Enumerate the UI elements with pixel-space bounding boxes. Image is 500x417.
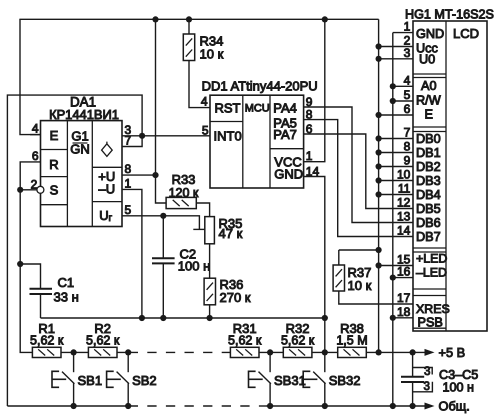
svg-text:XRES: XRES [416,302,450,316]
svg-text:1: 1 [125,176,132,190]
svg-text:10: 10 [397,168,411,182]
wire dashed row segment [138,351,230,353]
junction dot GND bus/ground rail [390,403,396,409]
svg-text:PA7: PA7 [273,127,297,142]
push button SB31 [269,352,271,372]
junction dot +5V/C3-C5 [410,349,416,355]
svg-text:1: 1 [306,149,313,163]
wire pin3/7 tie and left loop riser [7,95,142,406]
HG1 pin 4 A0 stub and number [393,85,413,87]
wire DA1 pin4 E drop from top rail [20,19,41,134]
push button SB32 [324,352,326,372]
svg-text:U0: U0 [419,52,435,66]
svg-text:5,62 к: 5,62 к [30,334,64,348]
resistor R38 1.5M [338,347,367,357]
svg-text:100 н: 100 н [178,259,210,274]
junction dot SB1/ground [71,403,77,409]
resistor R1 5.62k [32,347,61,357]
svg-text:R/W: R/W [416,94,441,108]
svg-text:A0: A0 [421,79,437,93]
resistor R34 10k [188,19,190,34]
svg-text:120 к: 120 к [169,186,199,200]
svg-text:PSB: PSB [418,316,443,330]
HG1 pin 10 DB3 stub and number [379,180,413,182]
svg-text:2: 2 [31,178,38,192]
wire R35 to R36 [209,244,211,278]
svg-text:3: 3 [424,366,430,378]
push button SB1 [73,352,75,372]
HG1 pin 18 PSB stub and number [393,317,413,319]
svg-text:DB3: DB3 [416,174,441,188]
HG1 pin 9 DB2 stub and number [379,166,413,168]
node R/S net vertical (DA1 R,S to R1) [20,162,40,353]
svg-text:SB2: SB2 [132,373,157,388]
wire R38 to +5V arrow [366,351,425,353]
junction dot SB31/ground [267,403,273,409]
svg-text:U: U [99,208,108,223]
svg-text:8: 8 [306,108,313,122]
svg-text:S: S [50,183,59,198]
svg-text:R: R [49,157,58,172]
wire PA4 to LCD DB6 pin13 [304,107,413,223]
HG1 pin 15 +LED stub and number [379,265,413,267]
HG1 pin 5 R/W stub and number [393,100,413,102]
junction dot +U net [152,172,158,178]
svg-text:8: 8 [404,140,411,154]
wire DA1 pin8 +U stub [122,174,156,176]
HG1 pin 7 DB0 stub and number [379,138,413,140]
wire C1 branch from S-net [20,264,40,289]
svg-text:LCD: LCD [453,26,479,41]
resistor R2 5.62k [88,347,117,357]
DA1 pin 2 S inversion circle and number [37,186,44,193]
junction dot R36/ground rail [207,315,213,321]
resistor R37 10k [338,250,340,265]
svg-text:5: 5 [125,203,132,217]
svg-text:E: E [50,128,59,143]
HG1 pin 6 E stub and number [379,114,413,116]
wire PA7 to LCD DB5 pin12 [304,134,413,209]
svg-text:16: 16 [397,265,411,279]
svg-text:г: г [109,213,113,224]
capacitor block C3-C5 [412,352,414,376]
wire DA1 pin2 S stub [20,189,36,191]
svg-text:14: 14 [397,224,411,238]
wire R32-R38 [312,351,338,353]
svg-text:7: 7 [404,126,411,140]
svg-text:6: 6 [306,122,313,136]
svg-text:13: 13 [397,210,411,224]
wire DA1 pin1 -U to ground rail [122,189,142,318]
wire bottom ground rail left [7,405,138,407]
svg-text:270 к: 270 к [220,290,251,305]
HG1 pin 8 DB1 stub and number [379,152,413,154]
HG1 pin 11 DB4 stub and number [379,194,413,196]
svg-text:RST: RST [215,100,241,115]
wire GND drop (DD1 pin14 down) [304,177,325,353]
wire R33 feed from top rail [156,20,167,203]
resistor R36 270k [204,278,215,305]
svg-text:5: 5 [404,88,411,102]
svg-text:–U: –U [98,182,115,197]
wire top +5V rail (E net) [19,18,378,20]
svg-text:+5 В: +5 В [439,345,466,360]
svg-text:SB1: SB1 [78,373,103,388]
svg-text:10 к: 10 к [348,278,372,293]
svg-text:10 к: 10 к [200,47,224,62]
ground Общ. arrow [425,403,435,410]
svg-text:DB6: DB6 [416,216,441,230]
svg-text:DB5: DB5 [416,202,441,216]
junction dot R37/+5V [376,247,382,253]
svg-text:5: 5 [202,124,209,138]
wire VCC riser (DD1 pin1 to top rail) [304,19,325,161]
svg-text:11: 11 [398,182,411,196]
svg-text:SB32: SB32 [329,373,361,388]
svg-text:5,62 к: 5,62 к [281,334,315,348]
svg-text:14: 14 [306,164,320,178]
svg-text:C1: C1 [58,275,75,290]
wire +5V column [378,19,380,352]
svg-text:7: 7 [125,134,132,148]
resistor R32 5.62k [283,347,312,357]
svg-text:1: 1 [404,20,411,34]
junction dot top rail/VCC [322,16,328,22]
wire analog ground rail [41,317,325,319]
wire R2 to dashed break [117,351,138,353]
junction dot top rail/R34 [186,16,192,22]
svg-text:12: 12 [397,196,411,210]
junction dot C3-C5/ground rail [410,403,416,409]
svg-text:+LED: +LED [416,251,447,265]
svg-text:3: 3 [424,381,430,393]
svg-text:1,5 М: 1,5 М [336,334,367,348]
wire R37 top to +5V column [339,249,379,251]
wire bottom ground rail right [266,405,426,407]
wire DA1 pin5 Ur line [122,216,199,230]
junction dot SB2/ground [125,403,131,409]
junction dot C1 branch [17,261,23,267]
svg-text:4: 4 [201,95,208,109]
wire GND bus column [392,33,394,406]
junction dot pin3 net [139,133,145,139]
svg-text:4: 4 [32,122,39,136]
svg-text:E: E [425,108,433,122]
wire INT0 net (DA1 pin3/7 to DD1 pin5) [122,135,210,137]
junction dot S-net pin2 [17,187,23,193]
push button SB2 [127,352,129,372]
svg-text:DB1: DB1 [416,146,441,160]
junction dot top rail/R33 net [152,16,158,22]
svg-text:INT0: INT0 [214,128,242,143]
svg-text:DD1 ATtiny44-20PU: DD1 ATtiny44-20PU [202,79,318,94]
resistor R33 120k [166,197,196,208]
HG1 pin 2 Ucc stub and number [379,46,413,48]
resistor R31 5.62k [230,347,259,357]
svg-text:33 н: 33 н [54,290,79,305]
junction dot SB32/ground [322,403,328,409]
junction dot R2/SB2 [125,349,131,355]
svg-text:Общ.: Общ. [439,399,470,414]
junction dot R32/R38/SB32/GND [322,349,328,355]
svg-text:8: 8 [125,162,132,176]
svg-text:17: 17 [397,291,411,305]
svg-text:6: 6 [32,149,39,163]
wire bottom ground rail dashed [138,405,266,407]
wire R35 wiper bar [193,228,205,230]
svg-text:HG1 MT-16S2S: HG1 MT-16S2S [405,8,494,22]
svg-text:DB7: DB7 [416,230,441,244]
svg-text:DB0: DB0 [416,132,441,146]
junction dot GND/analog rail [322,315,328,321]
DA1 pin 4 E stub and number [30,134,41,136]
svg-text:GND: GND [416,27,444,41]
svg-text:DB2: DB2 [416,160,441,174]
svg-text:MCU: MCU [245,103,270,115]
junction dot R38/+5V column [376,349,382,355]
svg-text:SB31: SB31 [274,373,306,388]
junction dot C2/ground rail [160,315,166,321]
svg-text:18: 18 [397,305,411,319]
MCU DD1 ATtiny44-20PU [210,95,304,188]
svg-text:6: 6 [404,102,411,116]
HG1 pin 16 -LED stub and number [393,277,413,279]
svg-text:–LED: –LED [416,265,447,279]
junction dot -U/ground rail [139,315,145,321]
svg-text:3: 3 [404,46,411,60]
junction dot Ur/C2 [160,213,166,219]
capacitor C2 [162,216,164,258]
HG1 pin 1 GND stub and number [393,32,413,34]
wire R31-R32 [259,351,283,353]
svg-text:КР1441ВИ1: КР1441ВИ1 [49,107,119,122]
junction dot R1/R2/SB1 [71,349,77,355]
svg-text:9: 9 [404,154,411,168]
wire R1-R2 [61,351,88,353]
svg-text:GN: GN [70,142,90,157]
LCD module HG1 MT-16S2S [413,21,487,331]
HG1 pin 3 U0 stub and number [379,58,413,60]
IC DA1 КР1441ВИ1 [41,121,123,227]
capacitor C1 [30,288,53,290]
svg-text:DB4: DB4 [416,188,441,202]
svg-text:100 н: 100 н [443,381,475,395]
svg-text:PA4: PA4 [273,100,297,115]
svg-text:5,62 к: 5,62 к [228,334,262,348]
wire R36 to ground rail [209,305,211,318]
svg-text:GND: GND [274,166,303,181]
wire R33 to R35 [196,203,209,217]
power +5V arrow [425,349,435,356]
trimmer R35 47k [205,217,215,244]
wire PA5 to LCD DB7 pin14 [304,120,413,237]
svg-text:47 к: 47 к [219,226,243,241]
svg-text:4: 4 [404,73,411,87]
junction dot R31/R32/SB31 [267,349,273,355]
svg-text:5,62 к: 5,62 к [86,334,120,348]
